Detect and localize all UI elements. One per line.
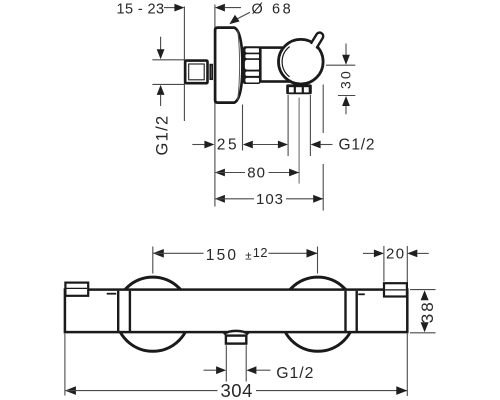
extension line: bar right end above xyxy=(406,246,408,283)
extension line: left escutcheon center xyxy=(152,247,154,274)
right knob seam lines xyxy=(344,291,346,331)
extension line: wall stub left face xyxy=(183,7,185,122)
svg-text:25: 25 xyxy=(217,136,239,153)
extension line: right bracket left edge xyxy=(383,246,385,282)
svg-text:30: 30 xyxy=(337,69,353,89)
right knob tick xyxy=(358,293,365,295)
extension line: outlet right xyxy=(245,345,247,381)
left escutcheon circle xyxy=(116,277,190,351)
svg-text:20: 20 xyxy=(386,245,406,262)
extension line: hose nut center xyxy=(298,98,300,184)
svg-text:±: ± xyxy=(245,251,251,263)
svg-text:150: 150 xyxy=(206,247,238,264)
extension line: escutcheon left face (full) xyxy=(214,5,216,207)
connector ring between stub and escutcheon xyxy=(210,65,212,80)
right escutcheon circle xyxy=(281,277,355,351)
left knob tick xyxy=(107,293,117,295)
extension line: bar right end below xyxy=(406,334,408,397)
extension line: bar left end below xyxy=(64,334,66,396)
wall stub (union) xyxy=(185,61,207,84)
right wall bracket xyxy=(384,283,407,296)
svg-text:15 - 23: 15 - 23 xyxy=(117,2,165,18)
handle inner ring arc xyxy=(282,47,289,77)
ribbed thread section xyxy=(243,46,260,84)
svg-text:304: 304 xyxy=(221,380,253,400)
dimension 20 xyxy=(363,245,429,262)
hose nut (G1/2 shower connection) xyxy=(286,84,312,94)
extension line: handle right edge lower xyxy=(322,164,324,211)
dimension 103 xyxy=(215,191,323,208)
bar body xyxy=(65,290,407,333)
outlet (G1/2 hose connection) dome xyxy=(224,331,248,335)
dimension 25 xyxy=(192,136,288,153)
dimension G1/2 (hose connection) xyxy=(311,137,376,154)
svg-text:G1/2: G1/2 xyxy=(276,365,314,382)
extension line: escutcheon right edge xyxy=(242,105,244,151)
G1/2 wall connection dimension (left, vertical) xyxy=(152,37,185,156)
handle knob circle xyxy=(279,39,324,84)
left wall bracket xyxy=(65,283,88,296)
dimension Ø 68 leader xyxy=(229,1,293,24)
svg-text:G1/2: G1/2 xyxy=(339,137,376,154)
extension line: outlet left xyxy=(225,345,227,381)
dimension 30 (right, vertical) xyxy=(326,44,355,115)
svg-text:103: 103 xyxy=(256,191,284,208)
dimension 80 xyxy=(215,165,299,182)
svg-text:38: 38 xyxy=(418,300,437,323)
svg-text:12: 12 xyxy=(253,245,268,260)
extension line: hose nut left xyxy=(287,95,289,156)
escutcheon disk (side view, Ø68) xyxy=(215,28,242,103)
left knob seam lines xyxy=(117,291,119,331)
svg-text:80: 80 xyxy=(247,165,266,182)
svg-text:Ø 68: Ø 68 xyxy=(252,1,294,17)
dimension 38 (right, vertical) xyxy=(410,290,437,333)
extension line: right escutcheon center xyxy=(317,247,319,274)
extension line: handle right edge upper xyxy=(322,85,324,134)
dimension 15-23 xyxy=(117,2,241,18)
dimension 150 ±12 xyxy=(153,245,318,264)
dimension G1/2 (outlet) xyxy=(204,365,315,382)
dimension 304 xyxy=(65,380,407,400)
valve body xyxy=(260,48,294,82)
extension line: hose nut right xyxy=(309,95,311,156)
outlet body xyxy=(226,336,246,344)
svg-text:G1/2: G1/2 xyxy=(154,115,172,156)
